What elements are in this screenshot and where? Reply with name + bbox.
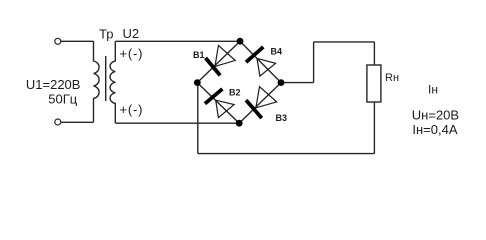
wire top terminal to primary xyxy=(61,40,94,42)
svg-text:U1=220В: U1=220В xyxy=(26,77,81,92)
svg-text:Rн: Rн xyxy=(385,72,399,84)
svg-text:В4: В4 xyxy=(271,46,283,56)
bridge edge top-right xyxy=(240,41,281,82)
svg-text:Тр: Тр xyxy=(99,26,113,41)
svg-text:+(-): +(-) xyxy=(120,102,144,117)
svg-text:+(-): +(-) xyxy=(120,46,144,61)
wire bottom tap to bridge bottom node xyxy=(115,122,239,124)
wire resistor bottom lead xyxy=(373,102,375,154)
diode B1 xyxy=(206,45,236,75)
transformer core xyxy=(105,56,107,101)
svg-text:Uн=20В: Uн=20В xyxy=(412,107,459,122)
diode B4 xyxy=(246,47,276,76)
resistor Rn body xyxy=(367,65,381,102)
terminal input top xyxy=(55,38,61,44)
svg-text:Iн: Iн xyxy=(428,82,438,96)
svg-text:В2: В2 xyxy=(229,88,241,98)
svg-text:U2: U2 xyxy=(123,26,140,41)
wire top right horizontal xyxy=(314,41,375,43)
bridge edge top-left xyxy=(197,41,240,82)
wire bottom rail xyxy=(198,153,375,155)
diode B3 xyxy=(246,87,277,118)
svg-text:50Гц: 50Гц xyxy=(48,92,77,107)
svg-text:Iн=0,4А: Iн=0,4А xyxy=(412,122,457,137)
secondary winding xyxy=(110,41,115,123)
wire U2 top tap to bridge top node xyxy=(115,40,240,42)
svg-text:В1: В1 xyxy=(193,50,205,60)
primary winding Tp xyxy=(94,41,100,122)
bridge edge bottom-right xyxy=(239,83,281,124)
wire right node to riser xyxy=(281,82,314,84)
terminal input bottom xyxy=(55,119,61,125)
wire riser up xyxy=(313,42,315,83)
node top xyxy=(237,38,244,45)
wire left return riser xyxy=(197,83,199,154)
svg-text:В3: В3 xyxy=(276,113,288,123)
wire resistor top lead xyxy=(373,42,375,65)
wire primary bottom to bottom terminal xyxy=(61,121,94,123)
node bottom xyxy=(236,120,243,127)
diode B2 xyxy=(205,89,234,118)
bridge edge bottom-left xyxy=(197,83,239,124)
node right xyxy=(278,79,285,86)
node left xyxy=(194,79,201,86)
